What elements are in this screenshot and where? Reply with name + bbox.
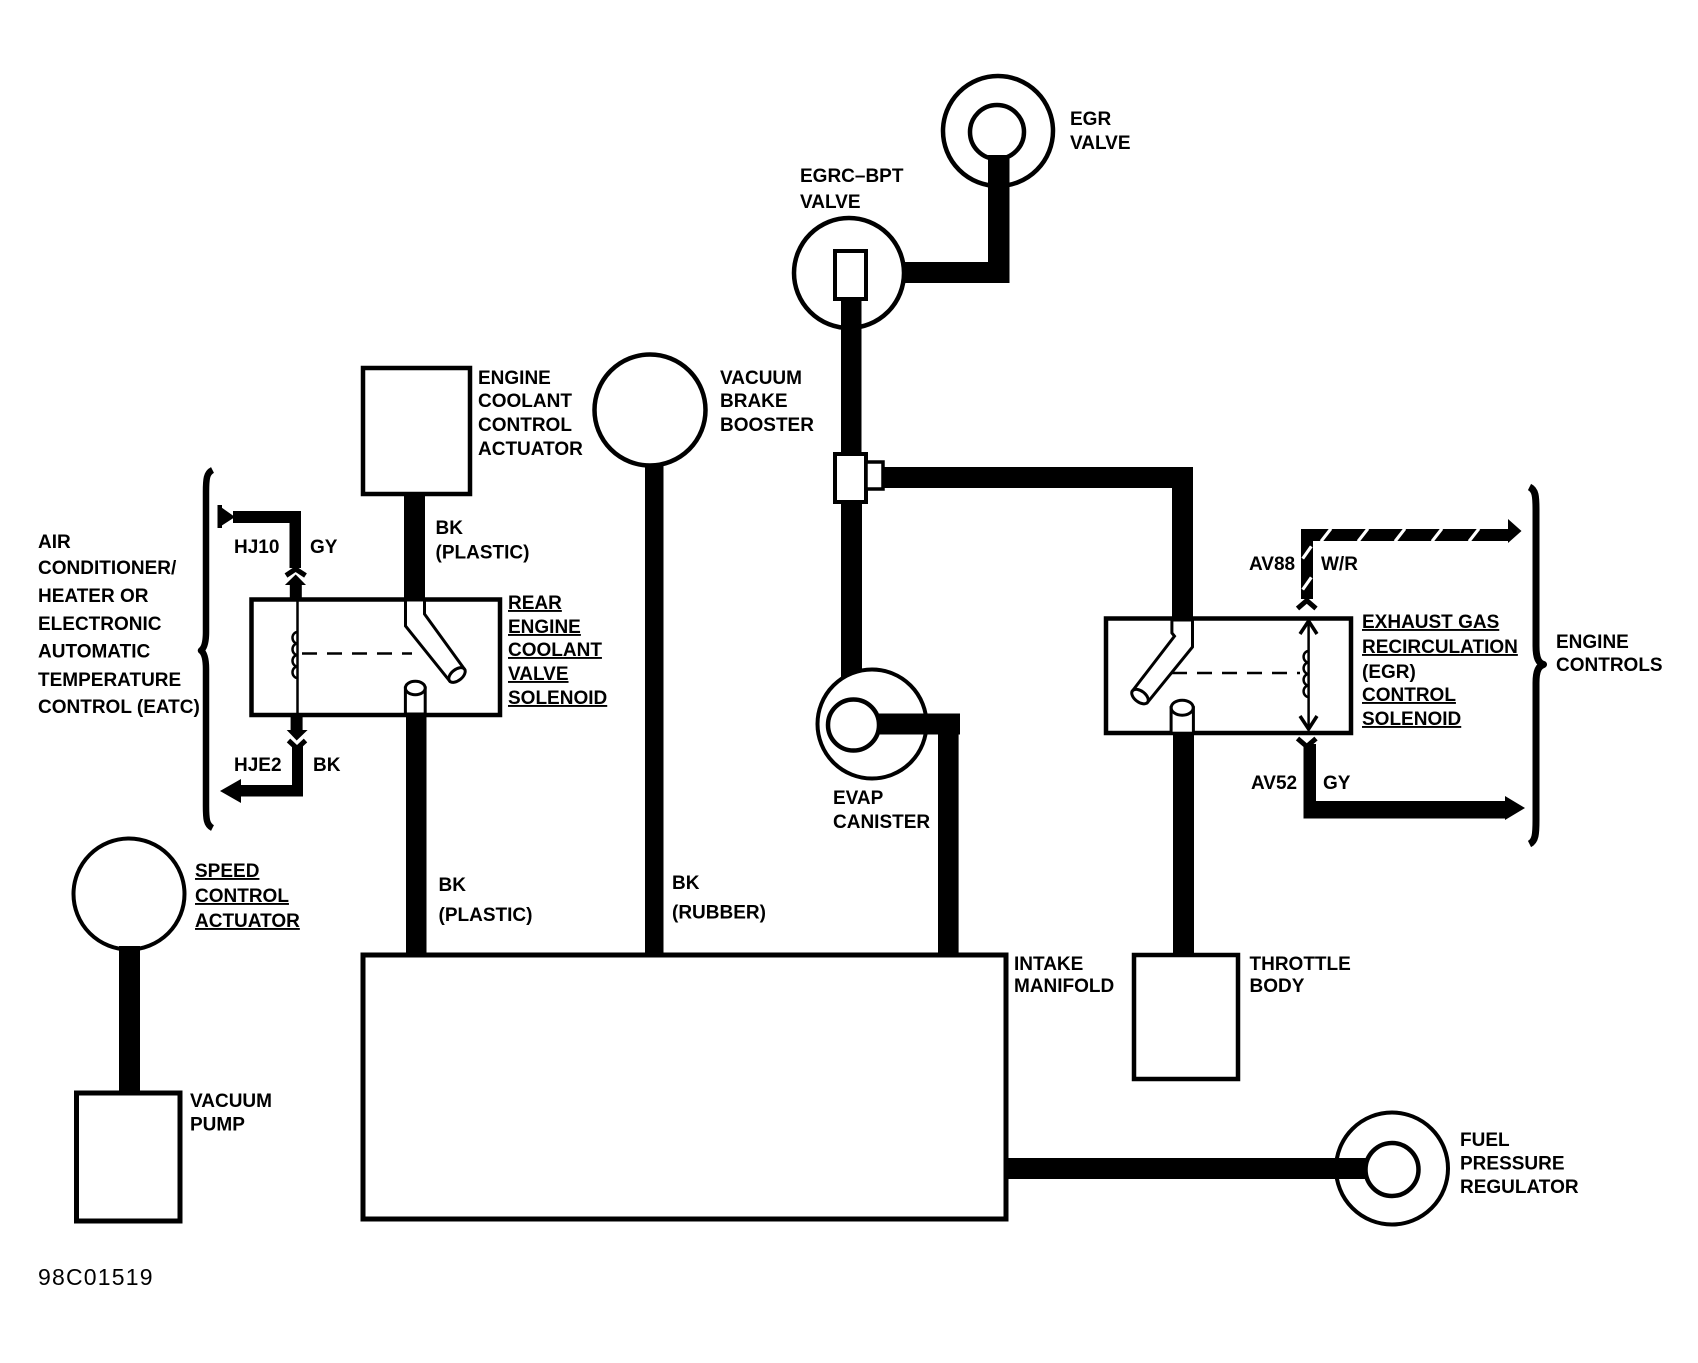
svg-text:EGR: EGR [1070,109,1111,130]
svg-text:VALVE: VALVE [1070,133,1131,154]
svg-text:TEMPERATURE: TEMPERATURE [38,670,181,691]
svg-text:ACTUATOR: ACTUATOR [478,439,583,460]
svg-text:EVAP: EVAP [833,788,884,809]
svg-text:AIR: AIR [38,532,71,553]
svg-text:CONTROLS: CONTROLS [1556,655,1663,676]
svg-text:CONTROL: CONTROL [1362,685,1456,706]
svg-text:HEATER OR: HEATER OR [38,586,149,607]
svg-text:SPEED: SPEED [195,861,259,882]
svg-text:HJE2: HJE2 [234,755,282,776]
svg-text:98C01519: 98C01519 [38,1264,154,1290]
svg-text:AUTOMATIC: AUTOMATIC [38,642,151,663]
svg-text:CONTROL: CONTROL [195,886,289,907]
svg-text:FUEL: FUEL [1460,1130,1510,1151]
svg-text:PRESSURE: PRESSURE [1460,1154,1565,1175]
svg-text:GY: GY [310,537,338,558]
svg-text:CONTROL (EATC): CONTROL (EATC) [38,697,200,718]
svg-text:COOLANT: COOLANT [508,640,602,661]
svg-text:ENGINE: ENGINE [508,617,581,638]
svg-text:ENGINE: ENGINE [1556,632,1629,653]
svg-text:AV88: AV88 [1249,554,1295,575]
svg-text:EXHAUST GAS: EXHAUST GAS [1362,612,1499,633]
svg-text:BOOSTER: BOOSTER [720,415,814,436]
svg-text:SOLENOID: SOLENOID [1362,709,1461,730]
svg-text:THROTTLE: THROTTLE [1250,954,1351,975]
svg-text:BRAKE: BRAKE [720,391,788,412]
svg-text:REAR: REAR [508,593,562,614]
svg-text:BK: BK [313,755,341,776]
svg-text:VALVE: VALVE [508,664,569,685]
svg-text:SOLENOID: SOLENOID [508,688,607,709]
svg-text:CONDITIONER/: CONDITIONER/ [38,558,177,579]
svg-text:BK: BK [439,875,467,896]
svg-text:PUMP: PUMP [190,1115,245,1136]
svg-text:W/R: W/R [1321,554,1358,575]
svg-text:(RUBBER): (RUBBER) [672,903,766,924]
svg-text:GY: GY [1323,773,1351,794]
svg-text:MANIFOLD: MANIFOLD [1014,976,1114,997]
svg-text:ELECTRONIC: ELECTRONIC [38,614,162,635]
svg-text:REGULATOR: REGULATOR [1460,1177,1579,1198]
svg-text:(PLASTIC): (PLASTIC) [436,543,530,564]
svg-text:VALVE: VALVE [800,192,861,213]
svg-text:AV52: AV52 [1251,773,1297,794]
svg-text:ACTUATOR: ACTUATOR [195,911,300,932]
svg-text:(EGR): (EGR) [1362,662,1416,683]
svg-text:(PLASTIC): (PLASTIC) [439,905,533,926]
svg-text:VACUUM: VACUUM [190,1091,272,1112]
svg-text:BODY: BODY [1250,976,1305,997]
svg-text:BK: BK [672,873,700,894]
svg-text:HJ10: HJ10 [234,537,279,558]
svg-text:RECIRCULATION: RECIRCULATION [1362,637,1518,658]
svg-text:ENGINE: ENGINE [478,368,551,389]
svg-text:BK: BK [436,518,464,539]
svg-text:CONTROL: CONTROL [478,415,572,436]
svg-text:COOLANT: COOLANT [478,391,572,412]
svg-text:VACUUM: VACUUM [720,368,802,389]
svg-text:INTAKE: INTAKE [1014,954,1083,975]
svg-text:EGRC–BPT: EGRC–BPT [800,166,904,187]
svg-text:CANISTER: CANISTER [833,812,930,833]
